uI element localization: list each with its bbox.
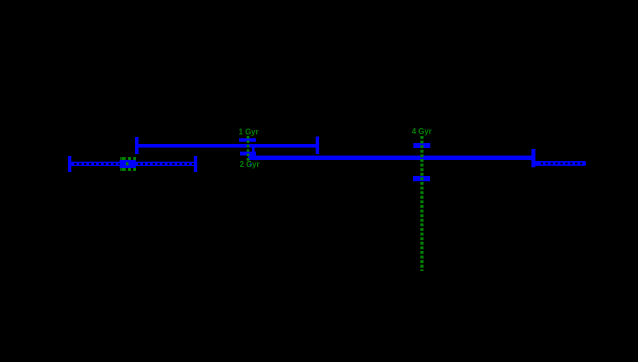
marker event 1 tick below bar A [240,152,256,156]
interval bar B (dash-dot bar with dark holes) [70,162,196,166]
interval bar A left cap [135,137,139,154]
interval bar D (dash-dot extension bar with dark holes) [534,161,586,166]
interval bar C right cap [531,149,535,167]
marker event 2 green dotted line [420,136,423,271]
interval bar C (solid) [248,156,533,160]
marker event 1 vertical connector [252,148,255,157]
marker event 1 green dotted line [247,136,250,161]
marker event 2 tick below bar C [413,176,430,181]
marker event 1 at x=248: tick above bar A [239,138,256,141]
interval bar B center label (green glyph fragments around blue blob) [120,157,136,171]
interval bar A (solid) [136,144,318,148]
marker event 1 blue dot in lower label [250,163,252,166]
interval bar A right cap [316,137,319,155]
svg-text:2 Gyr: 2 Gyr [240,160,260,169]
interval bar B right cap [194,156,197,172]
marker event 2 at x=422: tick above bar C [413,143,430,148]
svg-text:4 Gyr: 4 Gyr [412,127,432,136]
interval bar B left cap [68,156,71,172]
svg-text:1 Gyr: 1 Gyr [239,127,259,136]
